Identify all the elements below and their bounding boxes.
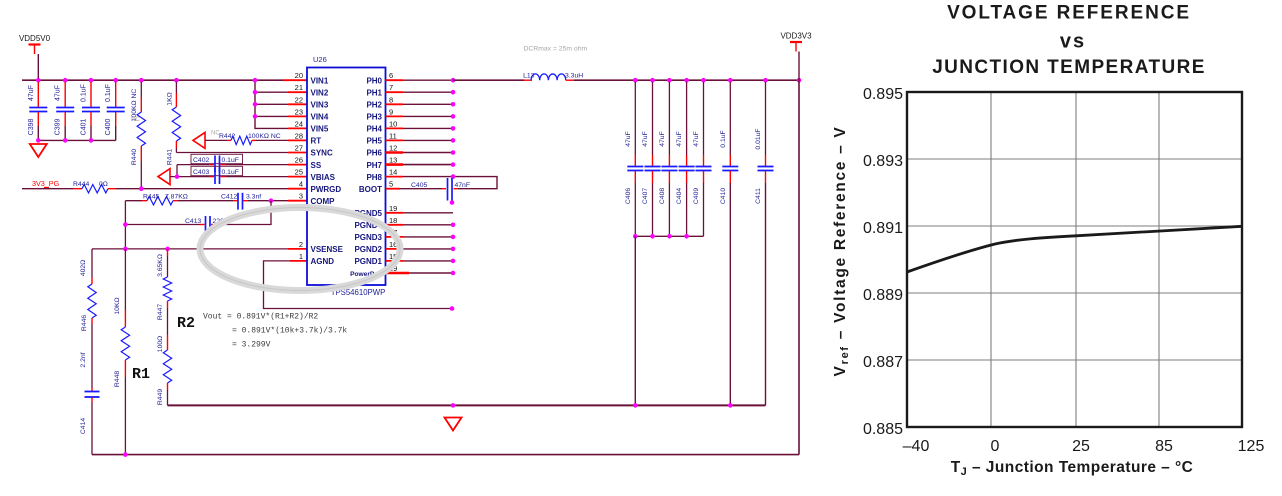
junction sense R448 — [123, 452, 128, 457]
junction PH0 bus — [451, 78, 456, 83]
svg-text:VIN4: VIN4 — [311, 113, 329, 122]
svg-text:1: 1 — [299, 252, 303, 261]
junction dots 5V bus — [36, 78, 41, 83]
svg-text:R448: R448 — [114, 371, 121, 387]
svg-text:R447: R447 — [157, 304, 164, 320]
svg-text:28: 28 — [295, 131, 303, 140]
wire output caps bottom bus — [634, 183, 636, 236]
svg-text:R2: R2 — [177, 315, 195, 332]
svg-text:8: 8 — [389, 95, 393, 104]
junction PWRGD R440 — [139, 186, 144, 191]
wire PH7 stub — [386, 163, 404, 166]
wire VIN2 — [255, 91, 288, 93]
resistor R441 1KOhm — [175, 82, 177, 93]
resistor R440 100KOhm NC — [140, 82, 142, 97]
svg-text:13: 13 — [389, 156, 397, 165]
svg-text:11: 11 — [389, 131, 397, 140]
svg-text:C398: C398 — [28, 119, 35, 136]
svg-text:0.889: 0.889 — [863, 287, 903, 304]
svg-text:SYNC: SYNC — [311, 149, 333, 158]
svg-text:0Ω: 0Ω — [99, 181, 108, 188]
capacitor C408 47uF — [668, 82, 670, 155]
resistor R448 10KOhm — [124, 249, 126, 310]
svg-text:Vout = 0.891V*(R1+R2)/R2: Vout = 0.891V*(R1+R2)/R2 — [203, 313, 318, 322]
svg-text:7.87KΩ: 7.87KΩ — [165, 194, 188, 201]
capacitor C404 47uF — [686, 82, 688, 155]
svg-text:R441: R441 — [167, 149, 174, 165]
svg-text:0.891: 0.891 — [863, 220, 903, 237]
inductor L13 3.3uH — [531, 74, 566, 80]
svg-text:3.3nf: 3.3nf — [246, 194, 261, 201]
svg-text:0.1uF: 0.1uF — [720, 130, 727, 147]
svg-text:PGND1: PGND1 — [354, 257, 382, 266]
capacitor C403 0.1uF — [191, 166, 243, 175]
pin stub PWRGD — [288, 188, 307, 190]
chart gridlines — [990, 92, 992, 427]
svg-text:SS: SS — [311, 161, 322, 170]
svg-text:9: 9 — [389, 107, 393, 116]
wire VIN1 pin stub — [283, 79, 307, 81]
svg-text:L13: L13 — [523, 73, 535, 80]
svg-text:0.887: 0.887 — [863, 354, 903, 371]
svg-text:14: 14 — [389, 168, 397, 177]
pin stub VIN — [288, 103, 307, 105]
svg-text:0.01uF: 0.01uF — [755, 128, 762, 149]
capacitor C411 0.01uF — [765, 82, 767, 155]
svg-text:6: 6 — [389, 71, 393, 80]
chart curve Vref vs TJ — [907, 226, 1242, 272]
svg-text:18: 18 — [389, 216, 397, 225]
svg-text:27: 27 — [295, 144, 303, 153]
wire SYNC — [176, 152, 288, 154]
svg-text:10: 10 — [389, 119, 397, 128]
svg-text:3.65KΩ: 3.65KΩ — [157, 254, 164, 277]
svg-text:C405: C405 — [411, 182, 427, 189]
wire C413 to COMP — [216, 201, 272, 225]
resistor R442 100KOhm NC — [231, 136, 252, 144]
capacitor C414 2.2nF — [91, 324, 93, 388]
capacitor C402 0.1uF — [191, 154, 243, 163]
pin stub VSENSE — [288, 248, 307, 250]
svg-text:vs: vs — [1060, 31, 1086, 53]
svg-text:2.2nf: 2.2nf — [80, 352, 87, 367]
junction COMP — [269, 198, 274, 203]
svg-text:47uF: 47uF — [693, 131, 700, 147]
svg-text:100KΩ NC: 100KΩ NC — [248, 133, 281, 140]
highlight ellipse — [200, 208, 400, 291]
svg-text:VIN5: VIN5 — [311, 125, 329, 134]
svg-text:3V3_PG: 3V3_PG — [32, 179, 60, 188]
wire C411 column to ground — [765, 183, 767, 405]
svg-text:22: 22 — [295, 95, 303, 104]
svg-text:85: 85 — [1155, 438, 1173, 455]
junction dots caps bottom bus — [633, 234, 638, 239]
svg-text:0.893: 0.893 — [863, 153, 903, 170]
resistor R444 0 Ohm — [73, 188, 82, 190]
wire VIN3 — [255, 103, 288, 105]
svg-text:0: 0 — [991, 438, 1000, 455]
svg-text:0.895: 0.895 — [863, 86, 903, 103]
svg-text:TJ – Junction Temperature – °C: TJ – Junction Temperature – °C — [951, 459, 1194, 478]
svg-text:0.1uF: 0.1uF — [222, 169, 239, 176]
pin stub VIN — [288, 91, 307, 93]
svg-text:24: 24 — [295, 119, 303, 128]
svg-text:–40: –40 — [903, 438, 930, 455]
svg-text:3: 3 — [299, 192, 303, 201]
wire COMP right — [248, 200, 288, 202]
svg-text:VSENSE: VSENSE — [311, 245, 344, 254]
svg-text:19: 19 — [389, 204, 397, 213]
svg-text:23: 23 — [295, 107, 303, 116]
wire VSENSE — [92, 248, 288, 250]
wire PH3 stub — [386, 115, 404, 117]
svg-text:PH8: PH8 — [366, 173, 382, 182]
svg-text:VOLTAGE REFERENCE: VOLTAGE REFERENCE — [947, 3, 1191, 24]
svg-text:VIN2: VIN2 — [311, 88, 329, 97]
svg-text:= 0.891V*(10k+3.7k)/3.7k: = 0.891V*(10k+3.7k)/3.7k — [232, 327, 347, 336]
resistor R446 402 Ohm — [91, 249, 93, 278]
svg-text:PH6: PH6 — [366, 149, 382, 158]
svg-text:PH0: PH0 — [366, 76, 382, 85]
svg-text:C404: C404 — [676, 188, 683, 204]
svg-text:PH7: PH7 — [366, 161, 382, 170]
svg-text:4: 4 — [299, 180, 303, 189]
svg-text:DCRmax = 25m ohm: DCRmax = 25m ohm — [524, 46, 588, 53]
wire ground bus — [168, 404, 766, 406]
svg-text:C401: C401 — [81, 119, 88, 136]
svg-text:PGND3: PGND3 — [354, 233, 382, 242]
svg-text:JUNCTION TEMPERATURE: JUNCTION TEMPERATURE — [932, 57, 1206, 78]
off-page arrow RT — [193, 132, 205, 148]
svg-text:2: 2 — [299, 240, 303, 249]
svg-text:PGND2: PGND2 — [354, 245, 382, 254]
capacitor C398 47uF — [37, 82, 39, 107]
svg-text:RT: RT — [311, 137, 322, 146]
pin stub VIN — [288, 115, 307, 117]
svg-text:0.1uF: 0.1uF — [81, 84, 88, 102]
svg-text:47uF: 47uF — [659, 131, 666, 147]
svg-text:47uF: 47uF — [28, 85, 35, 101]
wire SS — [177, 164, 209, 166]
wire PWRGD — [116, 188, 288, 190]
pin stub VBIAS — [288, 176, 307, 178]
svg-text:47uF: 47uF — [642, 131, 649, 147]
wire C413 branch — [125, 224, 200, 226]
svg-text:C410: C410 — [720, 188, 727, 204]
svg-text:= 3.299V: = 3.299V — [232, 341, 271, 350]
svg-text:R442: R442 — [219, 133, 235, 140]
junction dots ground bus — [451, 403, 456, 408]
wire SS to VBIAS link — [176, 165, 178, 177]
resistor R449 100 Ohm — [167, 308, 169, 335]
wire VIN vertical bus — [255, 80, 288, 128]
svg-text:R440: R440 — [131, 149, 138, 165]
svg-text:47uF: 47uF — [55, 85, 62, 101]
svg-text:PWRGD: PWRGD — [311, 185, 342, 194]
svg-text:R444: R444 — [73, 181, 89, 188]
off-page arrow VBIAS — [158, 169, 170, 185]
junction VBIAS — [175, 174, 180, 179]
svg-text:C407: C407 — [642, 188, 649, 204]
capacitor C407 47uF — [652, 82, 654, 155]
ground symbol input — [30, 144, 47, 157]
svg-text:BOOT: BOOT — [359, 185, 382, 194]
wire PH8 to boot cap — [386, 176, 404, 178]
svg-text:0.885: 0.885 — [863, 421, 903, 438]
svg-text:25: 25 — [295, 168, 303, 177]
wire C410 column to ground — [729, 183, 731, 405]
svg-text:3.3uH: 3.3uH — [565, 73, 583, 80]
pin stub SYNC — [288, 152, 307, 154]
svg-text:0.1uF: 0.1uF — [222, 157, 239, 164]
svg-text:C414: C414 — [80, 418, 87, 434]
svg-text:47nF: 47nF — [455, 182, 471, 189]
wire PowerPad stub — [386, 272, 410, 275]
wire output sense line — [92, 454, 799, 456]
svg-text:100Ω: 100Ω — [157, 336, 164, 352]
wire BOOT — [386, 188, 401, 190]
capacitor C412 3.3nF — [233, 200, 238, 202]
junction C413 — [123, 222, 128, 227]
wire PH to inductor — [453, 79, 524, 81]
svg-text:C413: C413 — [185, 218, 201, 225]
op-amp U26 TPS54610PWP body — [307, 68, 386, 286]
junction dots VIN bus — [253, 90, 258, 95]
svg-text:C400: C400 — [105, 119, 112, 136]
capacitor C399 47uF — [64, 82, 66, 107]
svg-text:C399: C399 — [55, 119, 62, 136]
wire COMP mid — [178, 200, 233, 202]
wire 5V top bus — [22, 79, 283, 81]
wire VBIAS — [170, 176, 209, 178]
svg-text:26: 26 — [295, 156, 303, 165]
svg-text:PH4: PH4 — [366, 125, 382, 134]
wire input cap bottom bus — [38, 139, 115, 141]
svg-text:C403: C403 — [193, 169, 209, 176]
svg-text:R445: R445 — [143, 194, 159, 201]
wire PH0 output — [386, 79, 404, 81]
svg-text:C408: C408 — [659, 188, 666, 204]
wire 3V3_PG — [22, 188, 73, 190]
svg-text:C409: C409 — [693, 188, 700, 204]
svg-text:C411: C411 — [755, 188, 762, 204]
capacitor C413 220pF — [205, 216, 207, 233]
wire PH5 stub — [386, 139, 404, 141]
resistor R447 3.65KOhm — [167, 249, 169, 256]
svg-text:PH1: PH1 — [366, 88, 382, 97]
pin stub SS — [288, 164, 307, 166]
svg-text:7: 7 — [389, 83, 393, 92]
wire PGND stubs — [386, 212, 404, 214]
junction AGND end — [450, 306, 455, 311]
pin stub RT — [288, 139, 307, 141]
svg-text:VIN3: VIN3 — [311, 101, 329, 110]
junction VSENSE R448 — [123, 247, 128, 252]
svg-text:R446: R446 — [81, 315, 88, 331]
capacitor C409 47uF — [703, 82, 705, 155]
wire AGND — [290, 260, 307, 262]
svg-text:C406: C406 — [625, 188, 632, 204]
svg-text:21: 21 — [295, 83, 303, 92]
capacitor C405 47nF — [447, 178, 449, 201]
ground symbol main — [445, 418, 462, 431]
wire C406 column to ground — [634, 236, 636, 405]
svg-text:1KΩ: 1KΩ — [167, 92, 174, 105]
pin stub VIN — [288, 127, 307, 129]
svg-text:VDD5V0: VDD5V0 — [19, 34, 51, 43]
svg-text:VBIAS: VBIAS — [311, 173, 336, 182]
wire PH6 stub — [386, 151, 404, 154]
svg-text:PH5: PH5 — [366, 137, 382, 146]
junction VSENSE R447 — [165, 247, 170, 252]
capacitor C406 47uF — [634, 82, 636, 155]
svg-text:C402: C402 — [193, 157, 209, 164]
svg-text:5: 5 — [389, 180, 393, 189]
capacitor C400 0.1uF — [115, 82, 117, 107]
wire PH4 stub — [386, 127, 404, 129]
pin stub COMP — [288, 200, 307, 202]
svg-text:47uF: 47uF — [676, 131, 683, 147]
capacitor C410 0.1uF — [729, 82, 731, 155]
svg-text:NC: NC — [131, 117, 140, 123]
svg-text:47uF: 47uF — [625, 131, 632, 147]
wire VIN4 — [255, 115, 288, 117]
junction dots output bus — [633, 78, 638, 83]
svg-text:VIN1: VIN1 — [311, 76, 329, 85]
capacitor C401 0.1uF — [90, 82, 92, 107]
svg-text:U26: U26 — [313, 55, 327, 64]
wire 3V3 output bus — [574, 79, 799, 81]
wire comp left vertical — [124, 201, 126, 249]
svg-text:R1: R1 — [132, 366, 150, 383]
svg-text:10KΩ: 10KΩ — [114, 297, 121, 314]
svg-text:R449: R449 — [157, 389, 164, 405]
wire VDD3V3 rail down — [798, 80, 800, 454]
svg-text:0.1uF: 0.1uF — [105, 84, 112, 102]
svg-text:C412: C412 — [221, 194, 237, 201]
svg-text:402Ω: 402Ω — [80, 260, 87, 276]
junction dots input cap bottom bus — [36, 138, 41, 143]
svg-text:20: 20 — [295, 71, 303, 80]
svg-text:PH2: PH2 — [366, 101, 382, 110]
svg-text:125: 125 — [1238, 438, 1265, 455]
resistor R445 7.87KOhm — [125, 200, 142, 202]
wire PH2 stub — [386, 103, 404, 105]
svg-text:PH3: PH3 — [366, 113, 382, 122]
wire PH1 stub — [386, 91, 404, 93]
svg-text:VDD3V3: VDD3V3 — [780, 32, 812, 41]
svg-text:25: 25 — [1072, 438, 1090, 455]
wire VDD3V3 entry — [798, 52, 800, 81]
chart plot border — [907, 92, 1242, 427]
svg-text:12: 12 — [389, 144, 397, 153]
wire VDD5V0 entry — [37, 54, 39, 80]
svg-text:AGND: AGND — [311, 257, 335, 266]
wire RT — [205, 139, 227, 141]
svg-text:Vref – Voltage Reference – V: Vref – Voltage Reference – V — [832, 126, 851, 377]
